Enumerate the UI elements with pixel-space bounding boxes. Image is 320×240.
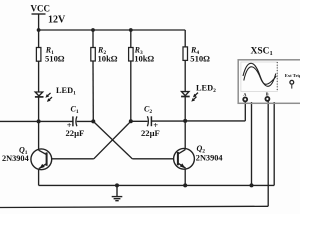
power symbol VCC bbox=[32, 14, 46, 30]
svg-text:510Ω: 510Ω bbox=[45, 53, 65, 63]
junction rail/R2 bbox=[91, 28, 95, 32]
wire bottom return rail bbox=[0, 206, 268, 207]
junction scope A- tap bbox=[250, 183, 254, 187]
svg-text:C2: C2 bbox=[144, 105, 152, 116]
svg-text:XSC1: XSC1 bbox=[251, 47, 273, 58]
svg-text:12V: 12V bbox=[48, 15, 66, 26]
scope display divider dotted bbox=[276, 62, 278, 92]
wire scope B+ down to bottom rail bbox=[267, 101, 269, 207]
svg-text:Ext Trig: Ext Trig bbox=[285, 73, 300, 78]
transistor Q1 bbox=[31, 121, 52, 169]
wire scope B- down to rail end bbox=[273, 102, 275, 185]
junction at VCC bbox=[37, 28, 41, 32]
junction C2/R3 node bbox=[129, 119, 133, 123]
LED1 bbox=[35, 92, 44, 97]
resistor R1 bbox=[36, 48, 41, 62]
ground bbox=[112, 185, 123, 200]
wire left edge stub to Q1 collector node bbox=[0, 120, 39, 122]
svg-text:LED2: LED2 bbox=[196, 84, 216, 95]
junction Q1 collector node bbox=[37, 119, 41, 123]
wire R3 stem lower bbox=[130, 61, 132, 121]
svg-text:22µF: 22µF bbox=[141, 128, 160, 138]
wire LED1 to node bbox=[38, 97, 40, 121]
capacitor C2 bbox=[147, 116, 151, 126]
scope waveform bbox=[243, 63, 276, 86]
wire LED2 to node bbox=[184, 97, 186, 121]
wire emitter ground rail bbox=[39, 184, 275, 186]
wire scope A- down bbox=[251, 102, 253, 185]
wire Q2 base horizontal bbox=[132, 158, 173, 160]
LED2 bbox=[181, 92, 190, 97]
svg-text:510Ω: 510Ω bbox=[190, 53, 210, 63]
LED1 arrows bbox=[44, 92, 53, 103]
svg-text:10kΩ: 10kΩ bbox=[134, 54, 154, 64]
wire cross diagonal to Q2 base bbox=[93, 121, 132, 158]
wire R1 to LED1 bbox=[38, 61, 40, 92]
scope Ext Trig terminal bbox=[290, 80, 294, 84]
junction rail/R3 bbox=[129, 28, 133, 32]
wire node to C2 bbox=[131, 120, 148, 122]
resistor R3 bbox=[129, 48, 134, 62]
wire rail corner to R4 bbox=[184, 30, 186, 47]
oscilloscope XSC1 box bbox=[238, 60, 302, 104]
svg-text:A: A bbox=[243, 92, 246, 97]
svg-text:22µF: 22µF bbox=[66, 128, 85, 138]
wire R3 stem bbox=[130, 30, 132, 48]
wire Q1 base horizontal bbox=[52, 158, 94, 160]
wire R4 to LED2 bbox=[184, 60, 186, 91]
wire node to scope A bbox=[185, 120, 245, 122]
wire C2 to LED2 node bbox=[152, 120, 186, 122]
transistor Q2 bbox=[174, 121, 195, 169]
LED2 arrows bbox=[190, 91, 199, 102]
wire node to C1 bbox=[39, 120, 73, 122]
wire R2 stem bbox=[92, 30, 94, 48]
wire Q2 emitter bbox=[184, 169, 186, 185]
junction Q2 collector node bbox=[183, 119, 187, 123]
wire rail to R1 bbox=[38, 30, 40, 48]
resistor R4 bbox=[183, 47, 188, 61]
svg-text:C1: C1 bbox=[71, 105, 79, 116]
junction ground tap bbox=[115, 183, 119, 187]
capacitor C1 bbox=[73, 116, 77, 126]
junction C1/R2 node bbox=[91, 119, 95, 123]
junction Q2 emitter/rail bbox=[183, 183, 187, 187]
wire R2 stem lower bbox=[92, 61, 94, 121]
wire cross diagonal to Q1 base bbox=[94, 121, 131, 159]
svg-text:VCC: VCC bbox=[31, 4, 51, 14]
wire Q1 emitter bbox=[38, 170, 40, 186]
svg-text:2N3904: 2N3904 bbox=[196, 154, 223, 163]
svg-text:B: B bbox=[266, 92, 269, 97]
wire top supply rail bbox=[39, 29, 186, 31]
resistor R2 bbox=[91, 48, 96, 62]
wire C1 to node bbox=[77, 120, 94, 122]
svg-text:LED1: LED1 bbox=[56, 86, 76, 97]
svg-text:2N3904: 2N3904 bbox=[2, 154, 29, 163]
svg-text:10kΩ: 10kΩ bbox=[98, 54, 118, 64]
